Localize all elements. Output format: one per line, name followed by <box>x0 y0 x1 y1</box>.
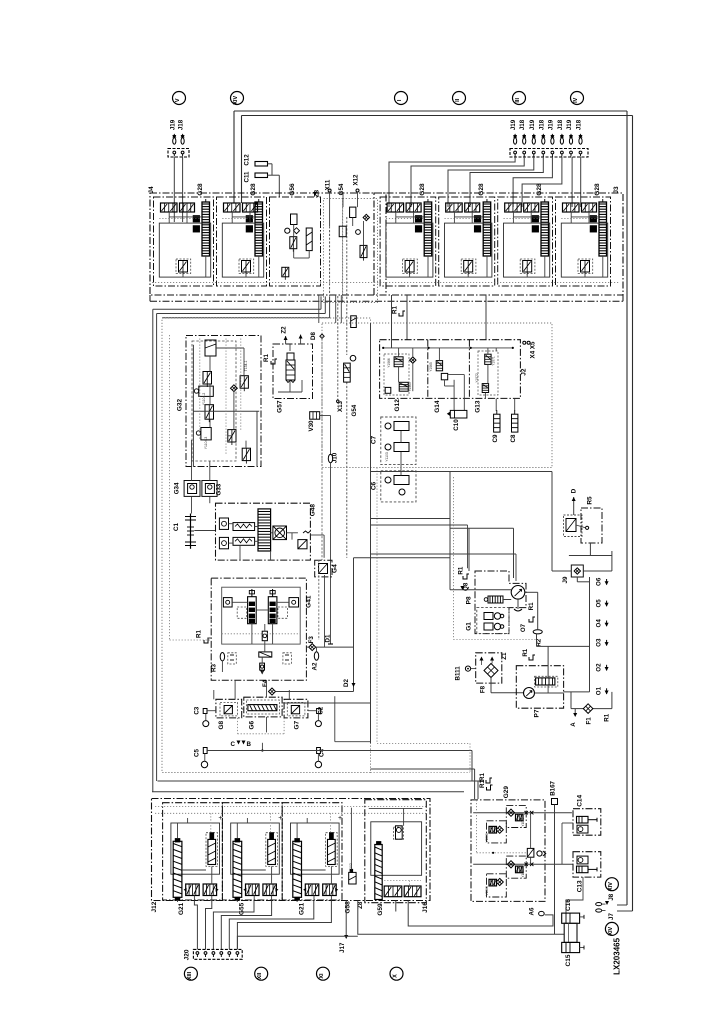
svg-text:XIV: XIV <box>608 882 614 891</box>
wire J16 to A6 <box>408 901 553 927</box>
svg-text:J18: J18 <box>557 119 564 130</box>
G12 check diamond <box>410 357 416 363</box>
svg-text:C11: C11 <box>244 171 251 183</box>
valve section G28 body outline <box>222 223 263 277</box>
G32 solenoid valve 3 <box>199 386 214 396</box>
G54 valve c <box>360 245 367 257</box>
svg-text:J3: J3 <box>613 186 620 194</box>
wire section to J20 <box>221 901 271 950</box>
G6 dotted drains <box>237 718 239 734</box>
wire X13 drop <box>329 226 331 296</box>
svg-text:C5: C5 <box>193 748 200 756</box>
wire section to J20 <box>237 901 331 950</box>
wire left rail outer <box>152 309 154 792</box>
G41 lower bobbin <box>260 663 265 670</box>
wire XIV bus top outer <box>234 110 627 112</box>
G48 main spool column <box>258 509 271 551</box>
wire bottom bus D <box>152 791 464 793</box>
G41 dotted cross line <box>222 633 301 635</box>
wire manifold drop <box>318 295 320 323</box>
svg-text:B111: B111 <box>454 666 461 681</box>
svg-text:R1: R1 <box>479 779 486 787</box>
wire F3 link <box>306 646 308 648</box>
ports X4 X5 <box>523 341 526 344</box>
valve R5 box <box>581 508 602 543</box>
valve section G28 solenoid tab b <box>415 226 421 232</box>
wire XIV bus right outer <box>626 111 628 905</box>
svg-text:J10: J10 <box>332 452 339 463</box>
wire connector to valve section <box>470 157 543 207</box>
cylinder C13 box <box>573 852 601 877</box>
valve section G28 pilot valve a <box>505 203 522 212</box>
manifold J3 outer box <box>374 193 623 295</box>
svg-text:Y1071: Y1071 <box>491 356 495 366</box>
capacitor C11 <box>255 173 268 178</box>
valve section G21 work valve b <box>323 884 337 896</box>
valve section G21 box <box>282 803 342 900</box>
svg-text:XIV: XIV <box>608 926 614 935</box>
wire G6 drain <box>266 717 268 733</box>
wire dotted manifold line <box>155 812 428 814</box>
svg-text:G12: G12 <box>394 399 401 412</box>
port O4 <box>606 621 608 627</box>
port O1 <box>606 688 608 694</box>
wire O-port rail <box>589 577 591 692</box>
J2 divider G12/G14 <box>427 340 429 399</box>
wire bus C below manifold <box>162 317 330 319</box>
wire connector to valve section <box>411 157 524 207</box>
G56 drain valve <box>282 267 289 277</box>
coil C9 <box>494 414 500 432</box>
svg-text:J9: J9 <box>562 576 569 583</box>
svg-text:G57: G57 <box>277 400 284 413</box>
connector J20 <box>193 949 242 959</box>
wire left rail inner <box>156 314 158 782</box>
svg-text:P8: P8 <box>466 596 473 604</box>
net label IV (circled) <box>571 92 584 105</box>
valve section G28 pilot valve a <box>446 203 463 212</box>
G32 check diamond <box>231 385 238 392</box>
valve section G21 body outline <box>291 823 340 874</box>
valve section G21 pilot valve <box>206 833 218 867</box>
pump P8 circle <box>511 586 525 600</box>
G32 valve 5 <box>201 428 211 440</box>
G32 pressure valve right <box>240 376 248 389</box>
pressure group G1 box <box>477 608 509 634</box>
valve section G28 solenoid tab b <box>474 226 480 232</box>
svg-text:A: A <box>570 722 577 727</box>
svg-text:G4: G4 <box>331 564 338 573</box>
G41 right bobbin <box>289 598 299 607</box>
G32 cross bus <box>193 410 259 412</box>
svg-text:O2: O2 <box>596 663 603 672</box>
G6 spool <box>248 705 277 711</box>
svg-text:J2: J2 <box>521 368 528 376</box>
wire feed from manifold to P8 <box>371 518 451 520</box>
accumulator R2 <box>533 630 542 634</box>
net label XIII (circled) <box>184 967 197 980</box>
valve section G28 relief valve <box>578 259 593 274</box>
svg-text:D1: D1 <box>324 634 331 642</box>
valve section G28 body outline <box>445 223 492 277</box>
valve section G28 body outline <box>561 223 607 277</box>
wire G54 drop <box>346 217 348 355</box>
valve block G41 box <box>211 578 306 680</box>
valve section G55 pilot valve <box>266 833 278 867</box>
wire manifold drop <box>335 295 337 323</box>
C14 piston <box>577 816 589 823</box>
wire G57 internal <box>289 344 291 351</box>
svg-text:Y1068: Y1068 <box>485 833 489 842</box>
wire y525 to P8 <box>371 524 468 526</box>
G29 filter cluster left-mid <box>487 821 507 843</box>
valve section G55 internal wires <box>236 900 238 902</box>
svg-text:X11: X11 <box>325 179 332 190</box>
valve section G28 solenoid tab a <box>474 216 480 222</box>
wire XIV bus into J7 <box>617 910 633 912</box>
svg-text:Y1102: Y1102 <box>349 863 353 873</box>
wire G8-G6-G7 links <box>242 708 244 710</box>
port O3 <box>606 640 608 646</box>
G32 dotted rails <box>199 339 201 441</box>
wire from J18 <box>182 157 184 222</box>
svg-text:G34: G34 <box>174 482 181 494</box>
svg-text:Y1103: Y1103 <box>385 452 389 462</box>
pump group P7 box <box>516 666 563 709</box>
wire P7 to F1 <box>564 691 590 693</box>
wire G34/G33 feeds <box>191 440 193 481</box>
valve section G28 solenoid tab b <box>532 226 538 232</box>
wire rail to J9 A <box>551 472 553 572</box>
valve on G54 line <box>351 316 357 328</box>
net label XIV (circled) <box>231 92 244 105</box>
svg-text:J12: J12 <box>151 901 158 912</box>
wire C7-C6 link <box>400 431 402 443</box>
wire F8 to P7 pump <box>490 678 492 693</box>
capacitor C12 <box>255 162 268 167</box>
svg-text:G28: G28 <box>536 183 543 196</box>
valve section G28 main spool <box>424 202 432 256</box>
G54 sub box <box>324 198 343 302</box>
svg-text:C6: C6 <box>371 481 378 490</box>
valve section G55 box <box>222 803 282 900</box>
svg-text:R1: R1 <box>528 602 535 610</box>
connector J19 plug <box>173 138 176 144</box>
Z2 aux tick <box>300 335 302 345</box>
G32 valve 2 <box>203 372 212 385</box>
svg-text:F3: F3 <box>308 636 315 644</box>
svg-text:Y1063: Y1063 <box>408 382 412 392</box>
G32 valve 4 <box>205 405 214 420</box>
svg-text:Y1065: Y1065 <box>429 362 433 372</box>
valve section G56 box <box>270 197 321 286</box>
wire capacitor to manifold <box>271 164 273 175</box>
wire F4 to D2 rail <box>276 691 354 693</box>
svg-text:G48: G48 <box>310 504 317 517</box>
G29 supply bus lower <box>473 863 573 865</box>
svg-text:C10: C10 <box>453 419 460 431</box>
svg-text:J19: J19 <box>547 119 554 130</box>
wire connector to valve section <box>448 157 534 207</box>
connector J18 plug (pin 6) <box>560 138 563 144</box>
svg-text:O5: O5 <box>596 599 603 608</box>
svg-text:X12: X12 <box>353 174 360 186</box>
wire section to J20 <box>194 901 197 950</box>
wire R2 to P7 <box>536 634 538 647</box>
G56 reducing valve <box>291 214 298 225</box>
C14 bobbin <box>577 825 588 833</box>
valve section J16 interior <box>365 800 427 903</box>
valve section G28 solenoid tab a <box>415 216 421 222</box>
port O2 <box>606 665 608 671</box>
wire bus A below manifold <box>153 308 321 310</box>
valve section G21 box <box>163 803 223 900</box>
wire G48 internal <box>229 523 234 525</box>
svg-text:X: X <box>393 974 399 978</box>
G32 left rail <box>192 345 194 467</box>
G56 valve 1 <box>290 237 297 249</box>
valve section G21 pilot dotted feed <box>329 813 331 832</box>
svg-text:O1: O1 <box>596 686 603 695</box>
wire XIV bus right inner <box>632 116 634 912</box>
wire R1 to G41 <box>208 637 211 639</box>
svg-text:C: C <box>231 741 236 748</box>
valve section G28 pilot valve b <box>243 203 258 212</box>
filter F3 <box>309 644 316 651</box>
svg-text:G32: G32 <box>176 398 183 411</box>
G56 valve 2 <box>306 228 312 251</box>
wire section to J20 <box>229 901 313 950</box>
wire G41 internal <box>251 624 253 644</box>
junction J9 <box>571 565 583 577</box>
G48 spring valve a <box>233 523 255 531</box>
G41 stack1 side box <box>237 607 247 618</box>
svg-text:V30: V30 <box>308 420 315 432</box>
svg-text:G58: G58 <box>345 901 352 914</box>
G29 filter cluster bottom-left <box>487 874 507 897</box>
connector J19 plug (pin 7) <box>569 138 572 144</box>
valve section G28 box <box>556 197 611 286</box>
wire inner dotted enclosure <box>169 335 171 640</box>
valve section G28 main spool <box>255 202 263 256</box>
svg-text:IV: IV <box>573 97 579 103</box>
valve section G28 pilot valve a <box>563 203 580 212</box>
G29 supply bus upper <box>473 812 572 814</box>
G48 right valve <box>298 540 307 549</box>
svg-text:C16: C16 <box>565 899 572 911</box>
svg-text:XIV: XIV <box>233 96 239 105</box>
G12 valve b <box>399 382 408 391</box>
wire manifold drop to J2 <box>485 295 487 340</box>
valve block G32 box <box>186 336 261 467</box>
connector J18 plug (pin 8) <box>579 138 582 144</box>
svg-text:G21: G21 <box>178 902 185 915</box>
G54 pilot circle <box>356 230 361 235</box>
svg-text:Y1072: Y1072 <box>475 373 479 383</box>
net label I (circled) <box>395 92 408 105</box>
svg-text:G7: G7 <box>294 720 301 729</box>
G56 pilot circle <box>285 228 290 233</box>
feed motor block <box>488 596 503 603</box>
svg-text:G6: G6 <box>248 720 255 729</box>
valve G4 <box>315 560 332 577</box>
svg-text:G28: G28 <box>197 183 204 196</box>
valve G8 box <box>216 699 242 718</box>
pilot valve block J2 box <box>380 340 521 399</box>
G29 filter cluster lower <box>506 856 526 878</box>
filter F4 <box>269 688 276 695</box>
wire R5 rail down <box>611 551 613 571</box>
valve section G55 body outline <box>231 823 280 874</box>
svg-text:G55: G55 <box>239 902 246 915</box>
C13 bobbin <box>577 856 588 864</box>
valve section G28 main spool <box>599 202 607 256</box>
port O6 <box>606 579 608 585</box>
svg-text:Y1066: Y1066 <box>485 886 489 895</box>
net label XIV bottom 2 (circled) <box>605 922 618 935</box>
accumulator body <box>564 923 577 942</box>
wire G4 down <box>324 575 326 647</box>
valve section G21 main spool <box>293 841 302 897</box>
manifold dotted lines <box>155 806 428 808</box>
svg-text:J19: J19 <box>510 119 517 130</box>
svg-text:O6: O6 <box>596 577 603 586</box>
valve block G48 box <box>216 503 311 560</box>
valve section G28 solenoid tab a <box>532 216 538 222</box>
wire G12 internal <box>398 348 400 357</box>
wire bottom bus B <box>158 780 482 782</box>
valve section G21 internal wires <box>296 900 298 902</box>
G54 ring <box>350 355 356 361</box>
G41 inner frame <box>222 587 301 644</box>
wire D8 drop <box>321 339 323 561</box>
connector strip header <box>510 149 588 158</box>
G48 pilot bobbin b <box>219 537 228 548</box>
connector J18 plug <box>181 138 184 144</box>
svg-text:G56: G56 <box>289 183 296 196</box>
J16 work valve a <box>384 886 402 897</box>
wire C5-C4 link <box>207 750 472 752</box>
G41 lower right box <box>283 653 292 664</box>
wire bus B below manifold <box>157 313 326 315</box>
net label XI (circled) <box>317 967 330 980</box>
wire G59 drop <box>395 901 397 912</box>
valve section G55 main spool <box>233 841 242 897</box>
valve section G21 spool stem <box>177 823 179 839</box>
svg-text:P7: P7 <box>534 709 541 717</box>
wire bottom bus A <box>371 768 475 770</box>
valve section G28 relief valve <box>520 259 535 274</box>
valve section G55 spool stem <box>236 823 238 839</box>
G12 dotted sub-box <box>384 354 409 395</box>
J16 dotted feeds <box>409 881 411 886</box>
wire y554 to P8 pump <box>371 553 517 555</box>
valve section G28 solenoid tab b <box>193 226 199 232</box>
valve section G28 solenoid tab a <box>246 216 252 222</box>
J2 divider G14/G13 <box>468 340 470 399</box>
wire G54 internal <box>329 192 331 226</box>
wire G29 feed B <box>477 781 479 799</box>
net label XIV bottom (circled) <box>605 878 618 891</box>
svg-text:G29: G29 <box>503 786 510 799</box>
net label III (circled) <box>513 92 526 105</box>
wire G7 to C2 <box>308 710 317 712</box>
valve G57 box <box>273 344 313 399</box>
net label II (circled) <box>453 92 466 105</box>
svg-text:F4: F4 <box>262 679 269 687</box>
valve section G28 pilot valve b <box>524 203 539 212</box>
G13 dotted sub-box <box>478 351 498 395</box>
svg-text:C9: C9 <box>492 434 499 442</box>
G48 right spring <box>303 531 311 533</box>
svg-text:C3: C3 <box>194 706 201 714</box>
wire G29 feed A <box>474 769 476 799</box>
G48 pilot bobbin a <box>219 518 228 529</box>
wire R5 to J9 rail <box>569 543 591 556</box>
svg-text:J18: J18 <box>576 119 583 130</box>
wire C3 to G8 <box>207 710 216 712</box>
wire A2 stub <box>316 647 318 652</box>
wire connector to valve section <box>389 157 515 207</box>
manifold J12 outer box <box>152 799 431 901</box>
wire G8 drain <box>261 743 263 751</box>
G29 dotted pilot line <box>477 852 527 854</box>
pump group P8 box <box>475 571 526 634</box>
svg-text:B167: B167 <box>550 780 557 795</box>
valve section G28 solenoid tab b <box>590 226 596 232</box>
wire manifold dotted drain line <box>152 282 620 284</box>
manifold J4 outer box <box>150 193 386 295</box>
connector J19 plug (pin 3) <box>532 138 535 144</box>
valve section G28 solenoid tab a <box>590 216 596 222</box>
valve section G55 pilot dotted feed <box>270 813 272 832</box>
wire section to J20 <box>213 901 254 950</box>
G54 check diamond <box>363 214 369 220</box>
pilot line Z2 <box>285 336 287 344</box>
J2 internal supply bus <box>383 347 513 349</box>
valve section G21 internal wires <box>177 900 179 902</box>
svg-text:C12: C12 <box>244 154 251 166</box>
svg-text:C4: C4 <box>318 748 325 756</box>
filter F1 <box>583 704 593 714</box>
drain D2 <box>353 558 355 692</box>
valve section G55 work valve a <box>246 884 260 896</box>
wire section to J20 <box>206 901 212 950</box>
wire C1 to G48 <box>194 530 215 532</box>
restrictor R3 <box>220 653 224 661</box>
valve G7 box <box>284 699 308 718</box>
svg-text:Z2: Z2 <box>281 326 288 334</box>
valve section G28 pilot valve b <box>180 203 195 212</box>
J16 top feed <box>369 807 423 809</box>
svg-text:O7: O7 <box>520 623 527 632</box>
J16 pilot bobbin <box>394 827 404 839</box>
wire P8 internals <box>525 591 538 593</box>
wire connector to valve section <box>580 157 582 207</box>
valve section G28 box <box>154 197 214 286</box>
wire mid cross A <box>370 323 372 743</box>
net label V (circled) <box>173 92 186 105</box>
valve section G28 relief valve <box>176 259 191 274</box>
accumulator A2 <box>314 652 318 660</box>
G1 pilot bobbin b <box>484 623 493 630</box>
wire G13 internal <box>487 348 489 354</box>
svg-text:F1: F1 <box>585 717 592 725</box>
svg-text:G59: G59 <box>377 903 384 916</box>
wire G32 internal <box>209 356 211 372</box>
svg-text:Y1104-2: Y1104-2 <box>202 393 206 406</box>
svg-text:V: V <box>175 98 181 102</box>
